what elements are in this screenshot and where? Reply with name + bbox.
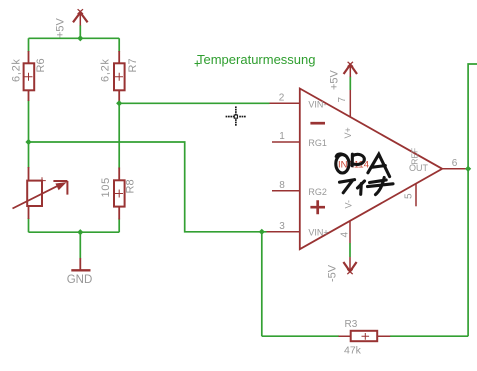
wire +5V supply stub pin7 xyxy=(349,77,351,91)
pin 6 OUT stub xyxy=(442,168,468,170)
wire right column R7/R8 branch xyxy=(118,38,120,232)
wire output right vertical xyxy=(468,64,477,336)
trimmer origin cross xyxy=(39,177,46,184)
supply +5V arrow pin7 xyxy=(344,62,357,77)
trimmer arrow xyxy=(13,181,68,209)
junction bridge mid right (pin2 net) xyxy=(116,100,122,106)
plus sign xyxy=(310,200,325,214)
pin 5 REF stub xyxy=(415,184,417,207)
svg-text:V+: V+ xyxy=(343,127,353,138)
supply -5V arrow pin4 xyxy=(343,257,356,274)
resistor R6 origin cross xyxy=(25,73,33,81)
resistor R3 origin cross xyxy=(362,333,370,340)
svg-text:R3: R3 xyxy=(345,319,358,330)
supply +5V arrow left xyxy=(73,9,88,25)
wire R3 right to output column xyxy=(390,335,468,337)
svg-text:RG2: RG2 xyxy=(308,187,327,197)
wire left column R6 branch xyxy=(28,38,30,232)
svg-text:+5V: +5V xyxy=(329,69,341,90)
pin 3 VIN+ stub xyxy=(267,231,300,233)
ground symbol xyxy=(71,258,90,270)
svg-text:OUT: OUT xyxy=(409,163,429,173)
svg-text:6,2k: 6,2k xyxy=(100,58,112,82)
junction pin3 node xyxy=(259,229,265,235)
junction node A left column xyxy=(25,139,31,145)
resistor R6 body xyxy=(24,63,35,90)
svg-text:6,2k: 6,2k xyxy=(11,58,23,82)
svg-text:+5V: +5V xyxy=(55,17,67,38)
resistor R8 body xyxy=(114,180,125,206)
svg-text:47k: 47k xyxy=(344,345,362,357)
svg-text:V-: V- xyxy=(344,200,354,209)
cursor crosshair xyxy=(226,106,246,125)
minus sign xyxy=(310,122,325,125)
svg-text:VIN-: VIN- xyxy=(308,99,326,109)
wire R3 bottom feedback xyxy=(262,335,339,337)
wire bottom rail GND net xyxy=(29,231,120,233)
svg-text:105: 105 xyxy=(100,177,112,197)
wire GND stub xyxy=(79,232,81,258)
resistor R6 pins xyxy=(28,51,30,101)
svg-text:-5V: -5V xyxy=(327,264,339,282)
svg-text:6: 6 xyxy=(452,158,458,169)
handwritten OPA xyxy=(336,154,390,177)
pin 4 V- stub xyxy=(349,221,351,243)
resistor R8 origin cross xyxy=(115,190,123,198)
wire -5V supply stub pin4 xyxy=(349,243,351,257)
wire node A to pin 3 xyxy=(29,142,267,232)
svg-text:5: 5 xyxy=(403,193,414,199)
pin 8 RG2 stub xyxy=(272,190,300,192)
junction +5V/top rail xyxy=(77,35,83,41)
wire bridge output to pin 2 xyxy=(119,102,269,104)
svg-text:1: 1 xyxy=(279,131,285,142)
trimmer thermistor body xyxy=(27,181,42,206)
resistor R3 body xyxy=(351,331,378,341)
svg-text:7: 7 xyxy=(337,97,348,103)
svg-text:VIN+: VIN+ xyxy=(308,227,328,237)
pin 1 RG1 stub xyxy=(272,141,300,143)
resistor R8 pins xyxy=(118,168,120,220)
pin 2 VIN- stub xyxy=(270,102,300,104)
resistor R7 origin cross xyxy=(115,73,123,81)
wire pin3 node down to R3 loop xyxy=(261,232,263,336)
title origin cross xyxy=(195,61,201,67)
svg-text:GND: GND xyxy=(67,274,93,286)
svg-text:R8: R8 xyxy=(125,179,137,193)
trimmer thermistor pins xyxy=(28,167,30,219)
resistor R7 body xyxy=(114,63,125,90)
svg-text:4: 4 xyxy=(339,232,350,238)
svg-text:RG1: RG1 xyxy=(308,138,327,148)
svg-text:Temperaturmessung: Temperaturmessung xyxy=(197,52,316,67)
wire top rail +5V net xyxy=(29,37,120,39)
svg-text:R7: R7 xyxy=(127,58,139,72)
resistor R7 pins xyxy=(118,51,120,103)
svg-text:R6: R6 xyxy=(35,58,47,72)
svg-text:2: 2 xyxy=(279,93,285,104)
op-amp U1 triangle xyxy=(300,89,442,250)
svg-text:8: 8 xyxy=(279,180,285,191)
junction GND tap xyxy=(77,229,83,235)
svg-text:3: 3 xyxy=(279,221,285,232)
resistor R3 pins xyxy=(339,335,391,337)
handwritten 717 xyxy=(340,178,394,195)
pin 7 V+ stub xyxy=(349,90,351,117)
junction output node xyxy=(465,166,471,172)
wire +5V supply stub left xyxy=(79,25,81,38)
